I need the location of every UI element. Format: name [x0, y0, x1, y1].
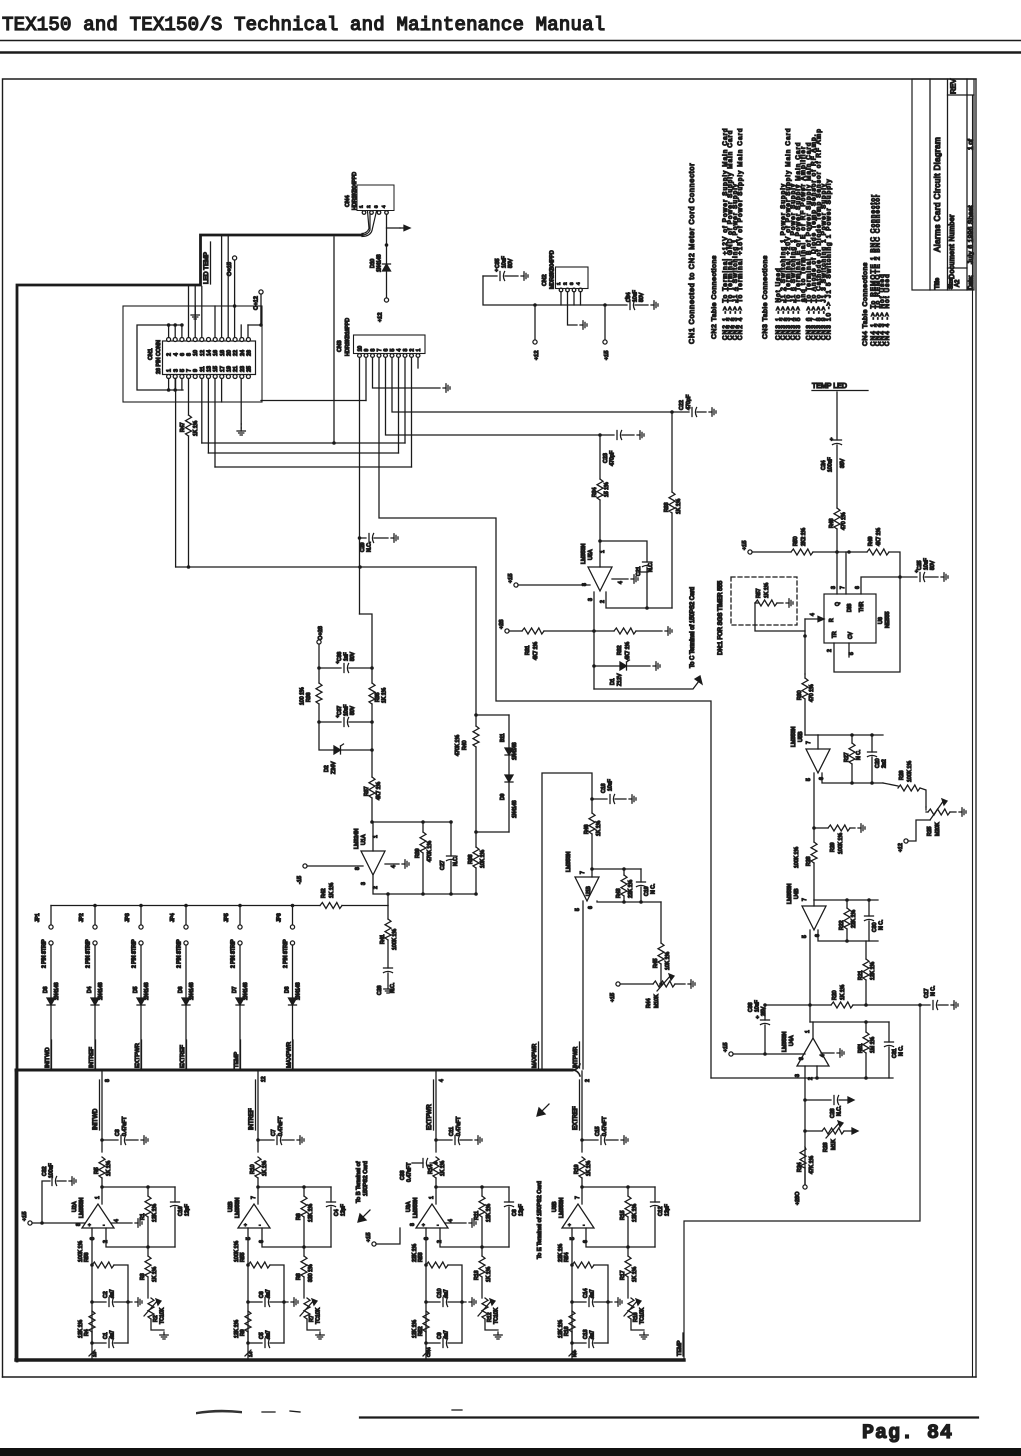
svg-text:10uF: 10uF — [633, 290, 639, 302]
capacitor C17 — [924, 986, 948, 1010]
resistor R36 — [300, 668, 323, 722]
svg-text:D10: D10 — [370, 259, 376, 268]
svg-text:HDRSKB04PPD: HDRSKB04PPD — [352, 172, 358, 210]
svg-text:CN1: CN1 — [148, 348, 154, 360]
resistor R19 — [574, 1157, 592, 1204]
svg-text:R12: R12 — [487, 1312, 493, 1322]
wire CN4 pin4 — [385, 215, 400, 247]
svg-text:JP3: JP3 — [125, 913, 131, 922]
svg-text:R18: R18 — [564, 1326, 570, 1336]
svg-text:R11: R11 — [474, 1211, 480, 1220]
svg-text:C17: C17 — [924, 988, 930, 998]
resistor R6 — [296, 1187, 314, 1247]
svg-text:U1A: U1A — [361, 834, 367, 845]
svg-text:6: 6 — [815, 934, 821, 937]
svg-text:4K7 1%: 4K7 1% — [625, 641, 631, 660]
svg-text:INTREF: INTREF — [89, 1047, 95, 1068]
capacitor C7 — [258, 1116, 294, 1145]
svg-text:2n2: 2n2 — [882, 759, 888, 768]
resistor R3 — [140, 1247, 158, 1298]
svg-text:U5B: U5B — [798, 731, 804, 742]
resistor R17 — [620, 1247, 638, 1298]
svg-text:C38: C38 — [748, 1002, 754, 1012]
svg-text:TR: TR — [832, 631, 838, 638]
resistor R43 — [616, 869, 634, 902]
svg-text:D2: D2 — [324, 765, 330, 772]
svg-text:D1: D1 — [610, 678, 616, 685]
diode D9 — [476, 775, 518, 832]
svg-text:R7: R7 — [309, 1315, 315, 1322]
resistor R20 — [765, 984, 930, 1008]
svg-text:LM358N: LM358N — [787, 884, 793, 904]
svg-text:7: 7 — [575, 1196, 581, 1199]
ground C35 — [521, 272, 528, 280]
svg-text:R16: R16 — [633, 1312, 639, 1322]
net label INITWD — [45, 1040, 52, 1068]
svg-text:TC10K: TC10K — [640, 1307, 646, 1324]
svg-text:18: 18 — [220, 350, 226, 356]
svg-text:22K 1%: 22K 1% — [628, 879, 634, 898]
wire main bus horizontal — [16, 1064, 580, 1076]
svg-text:9: 9 — [364, 349, 370, 352]
wire CN3 pin1 stub — [417, 358, 419, 369]
potentiometer R25 — [926, 799, 956, 836]
ground U5A pin4 — [631, 575, 638, 583]
svg-text:+12: +12 — [898, 843, 904, 852]
svg-text:1: 1 — [167, 369, 173, 372]
svg-text:17: 17 — [220, 366, 226, 372]
resistor R35 — [369, 683, 388, 777]
svg-text:EXTPWR: EXTPWR — [427, 1104, 433, 1130]
wire U2B feedback bottom — [262, 1228, 331, 1249]
svg-text:INITWD: INITWD — [45, 1047, 51, 1068]
svg-text:8: 8 — [105, 1079, 111, 1082]
svg-text:2 PIN STRIP: 2 PIN STRIP — [231, 939, 237, 968]
timer U6 pin5 stub — [849, 643, 855, 657]
resistor R55 input — [234, 1228, 284, 1343]
svg-text:INTPWR: INTPWR — [573, 1047, 579, 1068]
svg-text:C6: C6 — [259, 1291, 265, 1298]
connector CN1 — [163, 341, 256, 375]
svg-text:N C.: N C. — [651, 884, 657, 894]
connector CN1 label — [148, 340, 162, 374]
svg-text:R29: R29 — [830, 842, 836, 852]
svg-text:2: 2 — [410, 349, 416, 352]
svg-text:1: 1 — [556, 282, 561, 285]
wire U5A feedback — [606, 592, 672, 610]
resistor R4 — [78, 1311, 95, 1343]
resistor R22 — [839, 900, 857, 941]
svg-text:4n7: 4n7 — [444, 1330, 450, 1339]
svg-text:U3A: U3A — [406, 1201, 412, 1212]
terminal +15 U5A — [508, 574, 590, 588]
terminal +15 R44 — [610, 982, 620, 1002]
svg-text:R3: R3 — [140, 1273, 146, 1280]
capacitor C38 — [748, 1000, 770, 1056]
op-amp U4A — [782, 1022, 829, 1066]
svg-text:R51: R51 — [858, 1043, 864, 1053]
wire U5A pin3 column — [592, 592, 596, 689]
svg-text:1N4148: 1N4148 — [512, 800, 518, 818]
wire CN3 pin3 — [404, 358, 406, 444]
svg-text:1: 1 — [805, 1030, 811, 1033]
svg-text:C10: C10 — [437, 1288, 443, 1298]
svg-text:7: 7 — [251, 1196, 257, 1199]
svg-text:U2B: U2B — [228, 1201, 234, 1212]
svg-text:Z24V: Z24V — [331, 761, 337, 774]
svg-text:R19: R19 — [574, 1164, 580, 1174]
resistor R30 — [797, 674, 815, 735]
svg-text:22K 1%: 22K 1% — [412, 1243, 418, 1262]
svg-text:4: 4 — [397, 349, 403, 352]
svg-text:6: 6 — [180, 353, 186, 356]
wire CN3 pin8 ground — [373, 358, 441, 389]
wire CN3 pin5 to C22 — [392, 358, 672, 413]
terminal +15 timer — [742, 541, 791, 555]
connector JP5 2 pin strip — [224, 906, 242, 999]
resistor R41 — [380, 894, 398, 968]
capacitor C29 — [360, 534, 389, 553]
svg-text:CN4 Table Connections: CN4 Table Connections — [862, 262, 869, 346]
svg-text:D6: D6 — [178, 986, 184, 993]
svg-text:10K 1%: 10K 1% — [480, 849, 486, 868]
resistor R37 — [364, 777, 382, 822]
wire center bus — [542, 773, 592, 1069]
wire U3B feedback top — [582, 1185, 655, 1189]
wire U1B pin5 drop — [582, 901, 584, 1069]
capacitor C4 — [327, 1187, 347, 1247]
wire pin10 jog — [360, 614, 374, 683]
svg-text:U3B: U3B — [552, 1201, 558, 1212]
svg-text:C26: C26 — [377, 985, 383, 995]
svg-text:1K 1%: 1K 1% — [152, 1266, 158, 1282]
svg-text:12: 12 — [200, 350, 206, 356]
svg-text:JP6: JP6 — [277, 913, 283, 922]
resistor R29 — [814, 825, 855, 854]
resistor R38 — [468, 832, 486, 894]
svg-text:6: 6 — [819, 777, 825, 780]
svg-text:10K 1%: 10K 1% — [665, 951, 671, 970]
svg-text:R21: R21 — [858, 970, 864, 980]
svg-text:24: 24 — [240, 350, 246, 356]
svg-text:470K 1%: 470K 1% — [427, 841, 433, 862]
svg-text:3: 3 — [424, 1237, 430, 1240]
terminal -15 U1A — [297, 864, 363, 884]
connector JP4 2 pin strip — [170, 906, 188, 999]
connector JP3 2 pin strip — [125, 906, 143, 999]
svg-text:C27: C27 — [440, 860, 446, 870]
svg-text:R40: R40 — [462, 740, 468, 750]
diode D6 — [178, 982, 195, 1069]
resistor R48 — [829, 508, 847, 552]
svg-text:4: 4 — [381, 205, 386, 208]
svg-text:MAXPWR: MAXPWR — [287, 1042, 293, 1068]
capacitor C2 — [92, 1289, 132, 1306]
svg-text:1K 1%: 1K 1% — [840, 984, 846, 1000]
terminal +28 U5A — [499, 620, 522, 634]
svg-text:0.47uFT: 0.47uFT — [407, 1162, 413, 1182]
svg-text:7: 7 — [840, 586, 846, 589]
svg-text:1N4148: 1N4148 — [296, 982, 302, 1000]
svg-text:12K 1%: 12K 1% — [78, 1319, 84, 1338]
header rule thin — [0, 40, 1021, 42]
svg-text:R5: R5 — [94, 1167, 100, 1174]
svg-text:C4: C4 — [334, 1209, 340, 1216]
net label EXTREF — [180, 1040, 187, 1068]
svg-text:1: 1 — [359, 205, 364, 208]
capacitor C11 — [436, 1116, 472, 1145]
svg-text:R33: R33 — [664, 502, 670, 512]
wire CN3 pin7 outline — [379, 358, 711, 1079]
svg-text:1uF: 1uF — [344, 652, 350, 661]
svg-text:C20: C20 — [875, 758, 881, 768]
svg-text:U4B: U4B — [794, 888, 800, 899]
ground D1 — [653, 662, 660, 670]
svg-text:LM358N: LM358N — [559, 1198, 565, 1218]
svg-text:DN:1 FOR SGS TIMER 555: DN:1 FOR SGS TIMER 555 — [718, 580, 724, 655]
wire U4A feedback — [711, 1066, 893, 1080]
resistor R27 — [844, 735, 862, 783]
svg-text:25: 25 — [246, 366, 252, 372]
svg-text:R54: R54 — [564, 1252, 570, 1262]
svg-text:R14: R14 — [428, 1164, 434, 1174]
svg-text:To C Terminal of 150PS2 Card: To C Terminal of 150PS2 Card — [690, 587, 696, 668]
svg-text:+12: +12 — [378, 313, 384, 323]
op-amp U3A pins — [410, 1219, 466, 1243]
svg-text:R20: R20 — [832, 990, 838, 1000]
op-amp U2A — [72, 1196, 114, 1229]
svg-text:C15: C15 — [595, 1126, 601, 1136]
svg-text:EXTREF: EXTREF — [573, 1106, 579, 1130]
connector CN3 — [354, 335, 426, 354]
op-amp U3B — [552, 1196, 594, 1229]
net label MAXPWR — [287, 1040, 294, 1068]
diode D10 — [383, 245, 391, 298]
op-amp U2B — [228, 1196, 270, 1229]
op-amp U1B pins — [575, 906, 594, 911]
svg-text:July 6 1996 Sheet: July 6 1996 Sheet — [968, 205, 975, 264]
svg-text:LED TEMP: LED TEMP — [203, 252, 210, 284]
net label INTREF — [89, 1040, 96, 1068]
wire CN1 top bundle — [189, 237, 229, 338]
svg-text:26: 26 — [246, 350, 252, 356]
svg-text:D8: D8 — [285, 986, 291, 993]
footer page number — [862, 1422, 953, 1445]
wire bus drop — [333, 237, 335, 443]
timer U6 pin2 loop — [827, 577, 900, 672]
svg-text:C32: C32 — [42, 1166, 48, 1176]
svg-text:R8: R8 — [296, 1273, 302, 1280]
ground U1A pin4 — [402, 860, 409, 868]
svg-text:+15: +15 — [508, 574, 514, 584]
svg-text:470pF: 470pF — [610, 450, 616, 466]
resistor R47 — [180, 415, 199, 567]
node DN1 label — [718, 580, 724, 655]
connector CN1 pin bumps — [167, 338, 251, 379]
svg-text:3: 3 — [374, 205, 379, 208]
svg-text:23: 23 — [240, 366, 246, 372]
net label EXTPWR — [135, 1040, 142, 1068]
svg-text:3: 3 — [403, 349, 409, 352]
svg-text:+28: +28 — [499, 620, 505, 630]
connector CN2 — [556, 267, 589, 292]
ground U3A pin4 — [469, 1219, 476, 1227]
svg-text:B11: B11 — [500, 733, 506, 742]
potentiometer R7 — [300, 1298, 322, 1324]
resistor R33 — [664, 412, 682, 608]
ground C11 — [475, 1136, 482, 1144]
svg-text:6: 6 — [384, 349, 390, 352]
svg-text:12pF: 12pF — [341, 1204, 347, 1216]
svg-text:4K7 1%: 4K7 1% — [376, 781, 382, 800]
terminal +15 CN2 — [603, 305, 610, 360]
svg-text:R23: R23 — [823, 1142, 829, 1152]
ground C23 — [637, 431, 644, 439]
svg-text:R22: R22 — [839, 920, 845, 930]
net label EXTPWR — [427, 1079, 445, 1130]
svg-text:1K 1%: 1K 1% — [262, 1160, 268, 1176]
svg-text:CN3: CN3 — [337, 340, 343, 352]
svg-text:R15: R15 — [620, 1210, 626, 1220]
op-amp U2B pins — [246, 1237, 265, 1243]
svg-text:0.47uFT: 0.47uFT — [122, 1116, 128, 1136]
svg-text:JP5: JP5 — [224, 913, 230, 922]
svg-text:1K 1%: 1K 1% — [586, 1160, 592, 1176]
svg-text:CV: CV — [848, 631, 854, 639]
capacitor C9 — [424, 1330, 462, 1347]
capacitor C18 — [590, 779, 626, 803]
svg-text:TC10K: TC10K — [316, 1307, 322, 1324]
resistor R40 — [455, 567, 479, 834]
diode D4 — [87, 982, 104, 1069]
svg-text:2K2 1%: 2K2 1% — [801, 527, 807, 546]
wire U2A to rail — [89, 1343, 98, 1359]
capacitor C34 — [605, 290, 648, 309]
svg-text:1: 1 — [429, 1196, 435, 1199]
op-amp U4B — [787, 884, 826, 930]
wire U1A top rail — [373, 820, 453, 824]
capacitor C37 — [317, 705, 372, 727]
footer bottom bar — [0, 1448, 1021, 1456]
potentiometer R44 — [620, 974, 685, 1008]
wire CN3 pin9 — [365, 358, 367, 401]
svg-text:25V: 25V — [761, 1006, 767, 1016]
capacitor C21 — [600, 541, 654, 608]
ground U4A pin4 — [837, 1049, 844, 1057]
connector CN3 pins — [358, 346, 423, 358]
svg-text:4: 4 — [618, 581, 624, 584]
dashed box DN1 — [731, 577, 797, 625]
resistor R13 — [474, 1247, 492, 1298]
op-amp U5A pins — [582, 579, 628, 603]
svg-text:3: 3 — [90, 1237, 96, 1240]
diode D5 — [133, 982, 150, 1069]
net label TEMP — [234, 1040, 241, 1068]
wire jumper bus — [51, 904, 320, 908]
wire U2B to rail — [245, 1343, 254, 1359]
terminal +15 top — [227, 256, 237, 338]
svg-text:4n7: 4n7 — [590, 1330, 596, 1339]
svg-text:CN2 Table Connections: CN2 Table Connections — [711, 255, 718, 339]
svg-text:C36: C36 — [337, 652, 343, 661]
svg-text:U1B: U1B — [586, 886, 592, 896]
capacitor C20 — [868, 735, 888, 783]
svg-text:3: 3 — [173, 369, 179, 372]
connector CN2 label — [542, 250, 556, 289]
capacitor C22 — [670, 394, 706, 416]
svg-text:10: 10 — [193, 350, 199, 356]
svg-text:CN1 Connected to CN2 Meter Cor: CN1 Connected to CN2 Meter Cord Connecto… — [687, 163, 696, 344]
svg-text:N C.: N C. — [879, 920, 885, 930]
svg-text:12pF: 12pF — [519, 1204, 525, 1216]
svg-text:C7: C7 — [271, 1129, 277, 1136]
svg-text:Document Number: Document Number — [949, 214, 956, 279]
ground C10 — [469, 1298, 476, 1306]
connector JP6 2 pin strip — [277, 906, 295, 999]
svg-text:R1: R1 — [140, 1213, 146, 1220]
diode D2 zener — [319, 722, 372, 774]
node To E terminal label — [537, 1104, 549, 1259]
svg-text:N C.: N C. — [931, 986, 937, 996]
svg-text:LM358N: LM358N — [566, 852, 572, 872]
svg-text:R39: R39 — [415, 848, 421, 858]
capacitor C24 — [821, 392, 846, 508]
svg-text:+15: +15 — [22, 1212, 28, 1222]
terminal +15 U4A — [723, 1043, 805, 1057]
svg-text:R30: R30 — [797, 690, 803, 700]
op-amp U1A pins — [355, 864, 399, 889]
svg-text:R34: R34 — [592, 487, 598, 497]
svg-text:THR: THR — [859, 601, 865, 612]
op-amp U5B — [791, 727, 830, 773]
svg-text:C35: C35 — [495, 258, 501, 268]
resistor R18 — [558, 1311, 575, 1343]
svg-text:C1: C1 — [103, 1332, 109, 1339]
svg-text:R35: R35 — [375, 692, 381, 702]
page header title — [2, 14, 605, 36]
wire U1B feedback rail — [597, 900, 661, 904]
svg-text:+: + — [88, 1224, 91, 1229]
resistor R11 — [474, 1187, 492, 1247]
svg-text:R10: R10 — [250, 1164, 256, 1174]
terminal +12 R25 — [898, 820, 930, 852]
svg-text:8: 8 — [371, 349, 377, 352]
svg-text:330 1%: 330 1% — [308, 1264, 314, 1282]
svg-text:3: 3 — [569, 282, 574, 285]
svg-text:Title: Title — [935, 277, 941, 289]
svg-text:50V: 50V — [350, 651, 356, 661]
title block labels — [933, 79, 975, 290]
svg-text:26 PIN CONN: 26 PIN CONN — [156, 340, 162, 374]
svg-text:LM358N: LM358N — [791, 727, 797, 747]
svg-text:1N4148: 1N4148 — [189, 982, 195, 1000]
svg-text:4: 4 — [391, 865, 397, 868]
capacitor C3 — [102, 1116, 138, 1145]
svg-text:C2: C2 — [103, 1291, 109, 1298]
svg-text:7: 7 — [377, 349, 383, 352]
svg-text:12K 1%: 12K 1% — [234, 1319, 240, 1338]
svg-text:+: + — [568, 1224, 571, 1229]
wire U5B pin5 column — [806, 773, 825, 842]
connector CN3 label — [337, 318, 351, 356]
ground R2 — [151, 1319, 168, 1339]
ground R44 — [688, 980, 695, 988]
wire CN3 pin6 to C23 — [386, 358, 601, 436]
svg-text:+15: +15 — [604, 351, 610, 361]
svg-text:O+28: O+28 — [318, 626, 324, 640]
ground CN2 — [580, 321, 587, 329]
svg-text:13: 13 — [207, 366, 213, 372]
